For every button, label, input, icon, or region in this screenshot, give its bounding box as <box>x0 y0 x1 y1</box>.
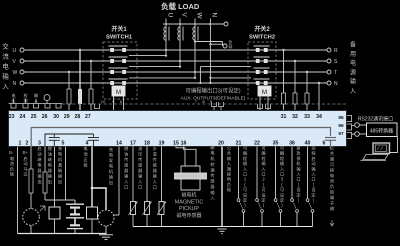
junction dot (195,41.5) <box>194 40 196 42</box>
svg-text:14: 14 <box>116 141 122 147</box>
wire: switch1 output jog V to load <box>129 66 180 68</box>
wire: terminal 14 to generator <box>114 147 119 216</box>
junction dot (210.4,77.9) <box>209 77 211 79</box>
charge generator circle <box>98 210 114 226</box>
junction dot (200.4,83) <box>199 82 201 84</box>
sensor input wire x=133 <box>132 147 134 227</box>
wire: switch2 output jog W <box>210 77 251 79</box>
svg-text:28: 28 <box>75 114 81 120</box>
fuse tap from bus x=80 <box>79 50 81 111</box>
svg-text:27: 27 <box>85 114 91 120</box>
wire: load phase vertical x=210.4 <box>209 19 211 84</box>
svg-text:RS232通讯接口: RS232通讯接口 <box>358 116 393 123</box>
sensor/input common bus <box>133 226 313 228</box>
starter arrow mark <box>40 206 45 211</box>
svg-text:20: 20 <box>218 141 224 147</box>
svg-text:M: M <box>262 90 267 96</box>
CT current transformer on wire x=195 <box>193 27 198 41</box>
plug mark x=214 <box>212 102 217 107</box>
switch1 bridge contact on bus y=50 <box>109 45 128 47</box>
terminal circle W input <box>20 70 24 74</box>
wire: starter output <box>30 147 32 234</box>
junction dot (180,66.6) <box>179 66 181 68</box>
svg-text:可编程输出口3(可设定): 可编程输出口3(可设定) <box>185 87 240 95</box>
CT current transformer on wire x=166 <box>164 27 169 41</box>
svg-text:负载: 负载 <box>229 39 233 50</box>
fuse tap right from bus x=295 <box>294 61 296 111</box>
plug mark below header x=25.5 <box>23 104 28 109</box>
switch1 bridge contact on bus y=61 <box>109 56 128 58</box>
svg-text:N: N <box>13 81 17 87</box>
plug mark x=221 <box>219 102 224 107</box>
svg-text:485转换器: 485转换器 <box>370 128 393 135</box>
svg-text:16: 16 <box>181 141 187 147</box>
terminal circle 485 B <box>355 132 360 137</box>
svg-text:开关2: 开关2 <box>254 25 270 33</box>
svg-text:32: 32 <box>292 114 298 120</box>
svg-text:B-: B- <box>9 150 14 155</box>
svg-text:23: 23 <box>9 114 15 120</box>
svg-text:磁电机: 磁电机 <box>181 192 196 199</box>
wire: input common (thick) <box>221 147 223 227</box>
input wire with switch x=238.5 <box>239 147 244 227</box>
switch1 bridge contact on bus y=72 <box>109 67 128 69</box>
svg-text:24: 24 <box>20 114 26 120</box>
wires: fuel relay branch <box>45 147 75 208</box>
wire: switch2 output jog V <box>200 66 251 68</box>
controller main box <box>9 111 347 147</box>
svg-text:开关1: 开关1 <box>111 25 127 33</box>
sense header line <box>9 103 63 105</box>
svg-text:SWITCH1: SWITCH1 <box>106 35 133 41</box>
junction dot (166,55.6) <box>165 55 167 57</box>
battery symbol <box>66 200 84 234</box>
junction dot (166,50) <box>165 49 167 51</box>
sensor (variable resistor) x=161.5 <box>159 202 164 215</box>
wire: mains bus V <box>24 60 327 62</box>
svg-text:26: 26 <box>42 114 48 120</box>
ground symbol left <box>99 232 113 240</box>
svg-text:U: U <box>13 48 17 54</box>
wire: mains bus N <box>24 82 327 84</box>
svg-text:交流电输入: 交流电输入 <box>2 42 9 91</box>
terminal circle 485 A <box>355 123 360 128</box>
wire: B- to ground bus <box>17 147 19 234</box>
fuse body <box>67 89 71 104</box>
sensor (variable resistor) x=147 <box>145 202 150 215</box>
wire: load phase vertical x=195 <box>194 19 196 78</box>
fuse tap from bus x=91 <box>90 61 92 111</box>
svg-text:磁电传感器: 磁电传感器 <box>176 212 201 219</box>
terminal circle U bypass right <box>327 48 331 52</box>
svg-text:25: 25 <box>31 114 37 120</box>
svg-text:SWITCH2: SWITCH2 <box>249 35 275 41</box>
fuse body <box>89 89 93 104</box>
plug mark x=97 <box>95 104 100 109</box>
wire: switch2 jog V drop to N bus <box>199 67 201 83</box>
fuse tap right from bus x=283.5 <box>283 50 285 111</box>
PC keyboard <box>363 155 388 160</box>
sensor (variable resistor) x=133 <box>131 202 136 215</box>
plug mark below header x=13.5 <box>11 104 16 109</box>
input wire with switch x=257 <box>257 147 262 227</box>
arrow mark below label <box>330 220 334 226</box>
svg-text:2: 2 <box>26 141 29 147</box>
svg-text:33: 33 <box>304 114 310 120</box>
switch2 dashed enclosure <box>248 42 276 99</box>
junction dot (210.4,44.2) <box>209 43 211 45</box>
switch2 motor actuator box <box>258 86 271 96</box>
wire: mains bus U <box>24 49 327 51</box>
svg-text:18: 18 <box>144 141 150 147</box>
switch1 motor actuator box <box>112 86 125 96</box>
CT current transformer on wire x=180 <box>178 27 183 41</box>
wire: load top horizontal <box>163 23 224 25</box>
svg-text:19: 19 <box>159 141 165 147</box>
svg-text:29: 29 <box>64 114 70 120</box>
switch2 bridge contact on bus y=72 <box>254 67 270 69</box>
sensor input wire x=147 <box>146 147 148 227</box>
svg-text:W: W <box>196 13 203 20</box>
wire: load phase vertical x=166 <box>165 19 167 56</box>
plug mark below header x=47.5 <box>45 104 50 109</box>
input wire with switch x=292 <box>292 147 297 227</box>
terminal circle N input <box>20 81 24 85</box>
plug mark below header x=36 <box>34 104 39 109</box>
svg-text:T: T <box>334 70 337 76</box>
svg-text:31: 31 <box>281 114 287 120</box>
wire: load N sense line <box>210 43 222 45</box>
svg-text:95: 95 <box>338 115 344 121</box>
svg-text:34: 34 <box>316 114 322 120</box>
converter box <box>367 123 398 137</box>
magnetic pickup body <box>181 166 200 190</box>
switch1 bridge contact on bus y=83 <box>109 78 128 80</box>
switch2 bridge contact on bus y=50 <box>254 45 270 47</box>
fuse on starter wire <box>29 169 33 193</box>
svg-text:22: 22 <box>254 141 260 147</box>
svg-text:AUX. OUTPUT3(DEFINABLE): AUX. OUTPUT3(DEFINABLE) <box>181 96 246 102</box>
terminal circle N bypass right <box>327 81 331 85</box>
wire: switch1 actuator to controller <box>114 96 124 111</box>
wire: load W sense line <box>195 41 223 43</box>
terminal circle U input <box>20 48 24 52</box>
terminal circle W bypass right <box>327 70 331 74</box>
wire: mains bus W <box>24 71 327 73</box>
ground bus left <box>18 233 107 235</box>
svg-text:21: 21 <box>236 141 242 147</box>
sensor input wire x=161.5 <box>161 147 163 227</box>
fuse tap from bus x=69 <box>68 72 70 111</box>
svg-text:PICKUP: PICKUP <box>179 206 199 212</box>
plug marks RS485 <box>347 115 352 122</box>
PC monitor icon <box>373 143 390 154</box>
svg-text:N: N <box>211 13 218 18</box>
wire: switch1 output jog W to load <box>129 77 195 79</box>
wire tap right N <box>318 83 320 111</box>
svg-text:40: 40 <box>305 141 311 147</box>
svg-text:96: 96 <box>338 123 344 129</box>
terminal circle load top <box>224 22 228 26</box>
input wire with switch x=275.5 <box>276 147 281 227</box>
junction dot (195,72) <box>194 71 196 73</box>
indicator circle above terminal 26 <box>44 95 50 101</box>
internal line with capacitors (black) <box>45 134 99 147</box>
junction dot (195,77.9) <box>194 77 196 79</box>
terminal circle V input <box>20 59 24 63</box>
wire: MPU signal pair with jogs <box>176 147 196 167</box>
terminal circle V bypass right <box>327 59 331 63</box>
ground symbol middle <box>218 229 227 234</box>
starter motor circle <box>23 209 40 226</box>
input wire with switch x=307.5 <box>308 147 313 227</box>
svg-text:36: 36 <box>289 141 295 147</box>
plug marks under switch2 <box>258 104 263 109</box>
svg-text:N: N <box>334 81 338 87</box>
svg-text:35: 35 <box>273 141 279 147</box>
switch2 bridge contact on bus y=83 <box>254 78 270 80</box>
junction dot (210.4,83) <box>209 82 211 84</box>
svg-text:M: M <box>116 90 121 96</box>
fuse on wire 45 <box>43 172 47 193</box>
fuse body <box>78 89 82 104</box>
junction dot (180,61) <box>179 60 181 62</box>
wire: B+ supply thick <box>92 147 106 211</box>
wire: switch1 output jog U to load <box>129 55 166 57</box>
svg-text:15: 15 <box>173 141 179 147</box>
internal shield loop (gray) <box>31 128 336 150</box>
svg-text:10: 10 <box>101 99 106 104</box>
svg-text:17: 17 <box>130 141 136 147</box>
svg-text:负载 LOAD: 负载 LOAD <box>161 1 200 11</box>
wire: generator to ground <box>105 226 107 232</box>
wire: switch2 actuator to controller <box>260 96 268 111</box>
switch1 dashed enclosure <box>103 42 137 99</box>
wire: converter to PC <box>390 137 398 153</box>
dashed panel boundary line <box>62 103 347 105</box>
wire: sense join vertical <box>222 42 224 47</box>
svg-text:97: 97 <box>338 131 344 137</box>
svg-text:B+: B+ <box>23 150 29 155</box>
svg-text:U: U <box>167 13 174 18</box>
wire: 485 stubs <box>352 125 355 134</box>
relay box 1 <box>49 207 60 219</box>
plug mark below header x=58.5 <box>56 104 61 109</box>
svg-text:30: 30 <box>53 114 59 120</box>
switch2 bridge contact on bus y=61 <box>254 56 270 58</box>
relay box 2 <box>87 207 98 219</box>
svg-text:MAGNETIC: MAGNETIC <box>175 200 204 206</box>
svg-text:6: 6 <box>323 141 326 147</box>
svg-text:R: R <box>334 48 338 54</box>
wire: load phase vertical x=180 <box>179 19 181 67</box>
svg-text:1: 1 <box>19 141 22 147</box>
terminal circle aux <box>223 44 227 48</box>
fuse tap right from bus x=307 <box>306 72 308 111</box>
svg-text:V: V <box>181 13 188 18</box>
svg-text:W: W <box>13 70 18 76</box>
